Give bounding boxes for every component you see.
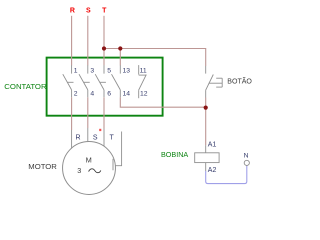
coil K1 body rectangle <box>195 153 219 163</box>
svg-text:S: S <box>93 134 98 141</box>
svg-text:3: 3 <box>90 67 94 74</box>
wire contact pin 4 to motor terminal S <box>87 97 89 128</box>
svg-text:11: 11 <box>140 67 147 74</box>
contactor main NO contact pole 5-6 <box>95 65 106 97</box>
svg-text:1: 1 <box>74 67 78 74</box>
motor frame stub wire <box>115 132 121 166</box>
contactor K1 enclosure box <box>47 58 163 116</box>
wire phase S to contact pin 3 <box>87 16 89 66</box>
wire contact pin 14 to coil node (seal-in) <box>120 97 205 107</box>
wire branch down to contact pin 13 <box>119 49 121 66</box>
svg-text:A1: A1 <box>208 142 217 149</box>
svg-text:MOTOR: MOTOR <box>28 164 57 171</box>
svg-text:S: S <box>86 8 91 15</box>
svg-text:CONTATOR: CONTATOR <box>4 82 46 91</box>
wire phase R to contact pin 1 <box>71 16 73 66</box>
svg-text:3: 3 <box>77 166 81 175</box>
junction on phase T <box>102 46 106 50</box>
motor terminal stub T <box>103 129 105 147</box>
red marker near S terminal <box>99 129 101 131</box>
wire contact pin 6 to motor terminal T <box>103 97 105 128</box>
svg-text:T: T <box>110 134 115 141</box>
svg-text:R: R <box>70 8 75 15</box>
motor terminal stub S <box>87 128 89 142</box>
svg-text:T: T <box>102 8 107 15</box>
pushbutton S1 (NO start button) <box>206 66 223 98</box>
svg-text:BOBINA: BOBINA <box>161 150 188 159</box>
motor terminal stub R <box>71 130 73 149</box>
wire control branch from phase T to pushbutton top <box>104 49 206 67</box>
svg-text:6: 6 <box>107 91 111 98</box>
coil K1 terminal stub A2 <box>205 163 207 171</box>
contactor auxiliary NC contact 11-12 <box>139 65 147 98</box>
svg-text:R: R <box>76 134 81 141</box>
svg-text:N: N <box>244 153 249 160</box>
junction button/seal-in/coil <box>204 106 208 110</box>
svg-text:A2: A2 <box>208 167 217 174</box>
contactor main NO contact pole 3-4 <box>79 65 90 97</box>
contactor auxiliary NO contact 13-14 (seal-in) <box>112 65 121 97</box>
coil K1 (BOBINA) terminal stub A1 <box>205 145 207 153</box>
svg-text:4: 4 <box>90 91 94 98</box>
svg-text:2: 2 <box>74 91 78 98</box>
wire pushbutton bottom to coil A1 <box>205 98 207 146</box>
motor AC tilde symbol <box>89 169 101 173</box>
contactor main NO contact pole 1-2 <box>63 65 74 97</box>
neutral terminal circle <box>244 160 249 165</box>
motor M1 (3-phase) body circle <box>63 142 116 195</box>
svg-text:12: 12 <box>140 91 148 98</box>
svg-text:5: 5 <box>107 67 111 74</box>
wire coil A2 to neutral N (blue) <box>206 166 247 184</box>
svg-text:13: 13 <box>123 67 131 74</box>
motor frame terminal plate <box>112 159 114 171</box>
svg-text:M: M <box>86 155 92 164</box>
junction at branch to pin 13 <box>118 46 122 50</box>
wire contact pin 2 to motor terminal R <box>71 97 73 130</box>
svg-text:BOTÃO: BOTÃO <box>227 76 252 85</box>
wire phase T to contact pin 5 <box>103 16 105 66</box>
svg-text:14: 14 <box>123 91 131 98</box>
